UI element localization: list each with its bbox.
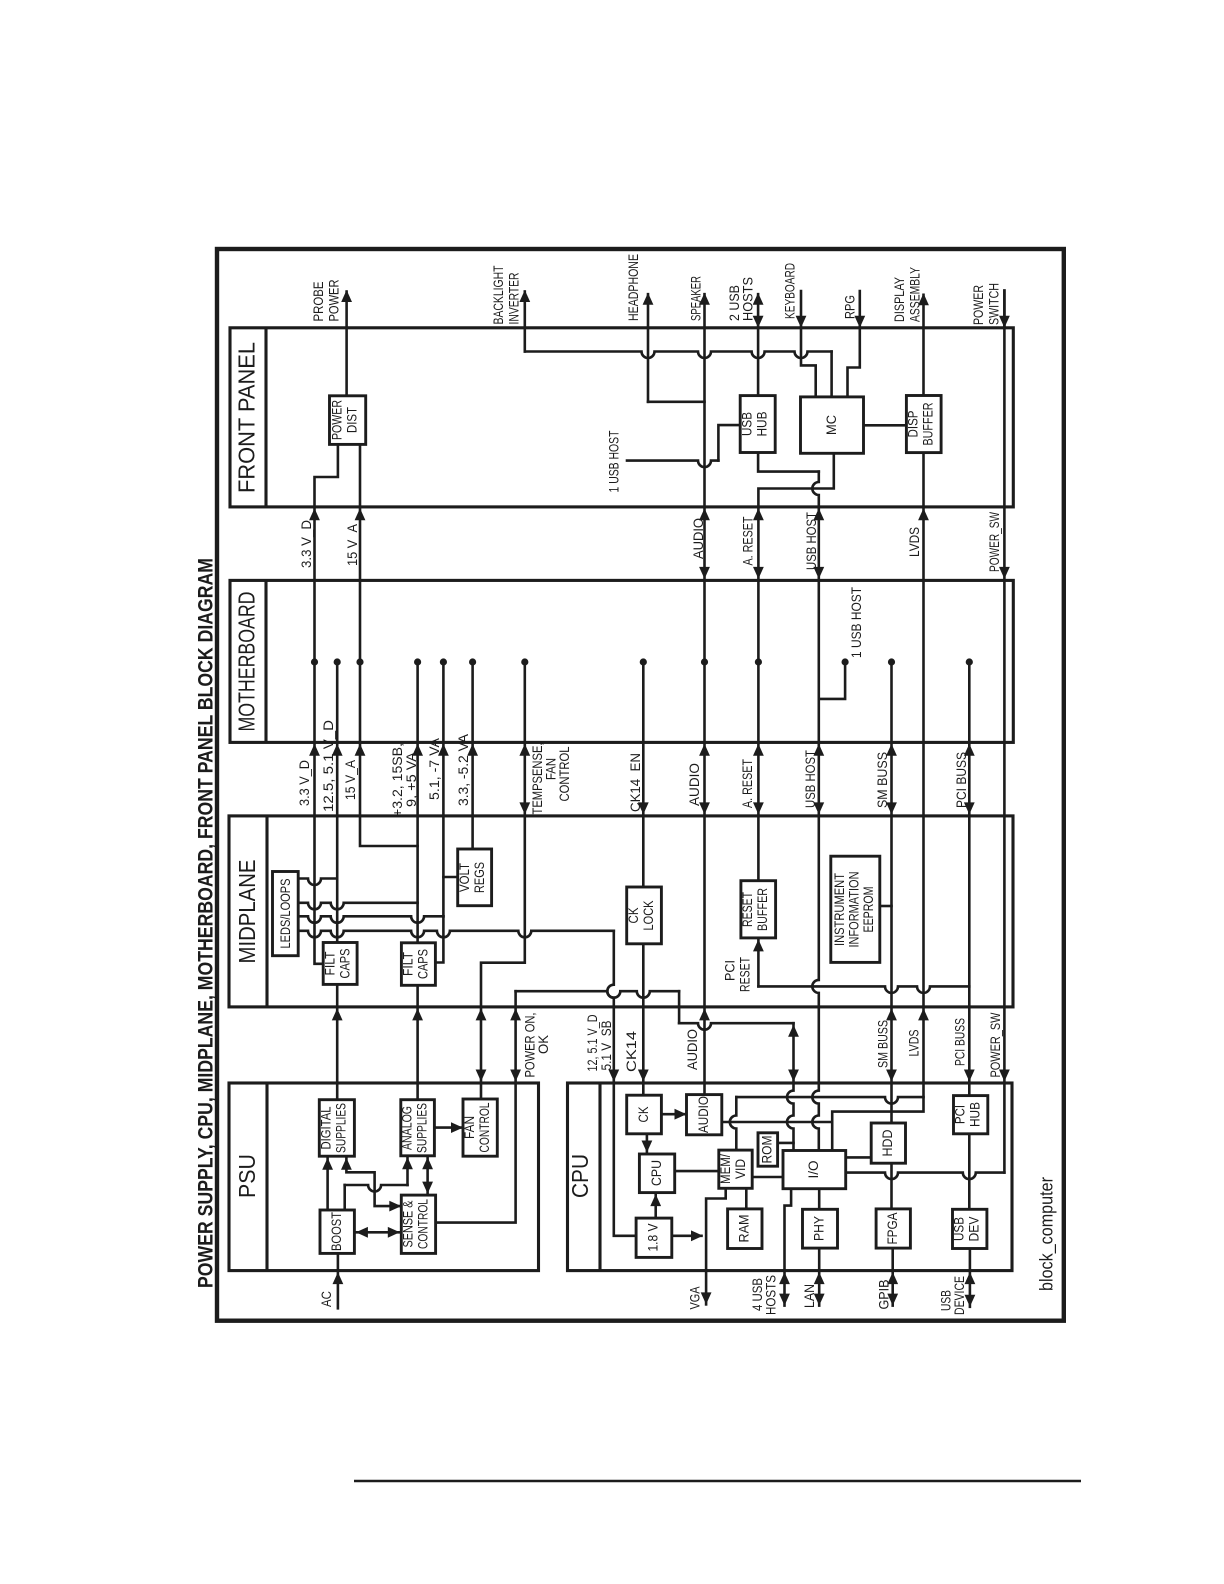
svg-text:PCI BUSS: PCI BUSS bbox=[952, 1018, 968, 1066]
wire I/O to HDD bbox=[846, 1156, 872, 1159]
wire AUDIO codec to I/O riser bbox=[722, 1121, 832, 1124]
section box PSU bbox=[229, 1083, 539, 1271]
svg-text:RESET: RESET bbox=[739, 892, 755, 927]
wire I/O to PHY bbox=[818, 1189, 821, 1210]
svg-text:AC: AC bbox=[318, 1291, 334, 1307]
wire LEDS loop bus A bbox=[298, 916, 443, 923]
svg-text:5.1 V_SB: 5.1 V_SB bbox=[598, 1021, 614, 1071]
wire 15V_A bbox=[359, 444, 362, 662]
section box FRONT PANEL bbox=[230, 328, 1013, 507]
svg-text:LVDS: LVDS bbox=[906, 527, 922, 557]
block DISP BUFFER bbox=[906, 396, 941, 453]
svg-text:SWITCH: SWITCH bbox=[986, 283, 1002, 325]
svg-text:DISPLAY: DISPLAY bbox=[891, 276, 907, 322]
block DIGITAL SUPPLIES bbox=[319, 1100, 354, 1157]
wire 1 USB HOST motherboard tap bbox=[819, 662, 845, 699]
block AUDIO CODEC bbox=[687, 1095, 722, 1135]
wire USB DEVICE bbox=[969, 1249, 972, 1271]
svg-text:FILT: FILT bbox=[400, 952, 416, 976]
svg-text:MOTHERBOARD: MOTHERBOARD bbox=[234, 592, 260, 732]
svg-text:INVERTER: INVERTER bbox=[506, 273, 522, 325]
wire HEADPHONE bbox=[647, 294, 650, 402]
block FPGA bbox=[876, 1209, 910, 1248]
svg-text:POWER: POWER bbox=[329, 400, 345, 440]
wire PCI RESET bbox=[757, 938, 760, 987]
svg-text:SM BUSS: SM BUSS bbox=[874, 752, 890, 808]
wire 3.3V_D bbox=[315, 444, 338, 507]
section box CPU bbox=[568, 1083, 1013, 1271]
block SENSE & CONTROL bbox=[401, 1195, 435, 1253]
svg-text:MIDPLANE: MIDPLANE bbox=[234, 860, 260, 964]
block MC bbox=[801, 397, 864, 453]
svg-text:15 V_A: 15 V_A bbox=[344, 523, 360, 566]
wire A. RESET bbox=[757, 507, 760, 581]
wire USB HUB to USB HOST bbox=[758, 453, 819, 472]
svg-text:BACKLIGHT: BACKLIGHT bbox=[490, 265, 506, 324]
wire AC input bbox=[337, 1253, 340, 1308]
wire DIGITAL SUPPLIES to SENSE & CONTROL bbox=[346, 1158, 399, 1206]
svg-text:HEADPHONE: HEADPHONE bbox=[625, 254, 641, 321]
wire MC to DISP BUFFER bbox=[864, 424, 907, 427]
svg-text:CONTROL: CONTROL bbox=[556, 746, 572, 801]
wire BOOST to SENSE & CONTROL bbox=[354, 1231, 401, 1234]
wire SPEAKER / AUDIO to front panel bbox=[703, 294, 706, 507]
wire MC to A. RESET bbox=[758, 453, 833, 507]
wire ANALOG SUPPLIES to FAN CONTROL bbox=[434, 1126, 461, 1129]
wire KEYBOARD bbox=[801, 291, 816, 397]
svg-text:PSU: PSU bbox=[234, 1154, 260, 1198]
block POWER DIST bbox=[330, 396, 366, 445]
wire FILT CAPS 2 to ANALOG SUPPLIES bbox=[416, 985, 419, 1099]
wire LAN bbox=[818, 1248, 821, 1271]
svg-text:USB HOST: USB HOST bbox=[802, 750, 818, 808]
wire USB HOST bus lower bbox=[817, 742, 820, 816]
outer frame bbox=[217, 249, 1064, 1321]
svg-text:DIST: DIST bbox=[344, 407, 360, 433]
svg-text:CK14_EN: CK14_EN bbox=[627, 753, 643, 812]
wire CK to CPU bbox=[646, 1134, 649, 1154]
wire LVDS bbox=[922, 453, 925, 507]
wire AUDIO bus bbox=[703, 507, 706, 581]
wire MEM/VID video feed bbox=[736, 1097, 923, 1104]
svg-text:REGS: REGS bbox=[471, 862, 487, 893]
svg-text:15 V_A: 15 V_A bbox=[342, 759, 358, 800]
wire DISPLAY ASSEMBLY bbox=[922, 295, 925, 396]
svg-text:block_computer: block_computer bbox=[1037, 1177, 1058, 1291]
svg-text:1 USB HOST: 1 USB HOST bbox=[848, 587, 864, 658]
svg-text:MEM/: MEM/ bbox=[717, 1154, 733, 1184]
wire CK14_EN bbox=[640, 658, 647, 665]
svg-text:BOOST: BOOST bbox=[328, 1212, 344, 1251]
svg-text:DEVICE: DEVICE bbox=[951, 1276, 967, 1315]
svg-text:DISP: DISP bbox=[905, 411, 921, 438]
svg-text:HUB: HUB bbox=[754, 412, 770, 437]
svg-text:BUFFER: BUFFER bbox=[754, 888, 770, 931]
wire EEPROM stub bbox=[880, 905, 892, 908]
wire VGA bbox=[706, 1188, 726, 1270]
wire 12.5, 5.1 V_D bbox=[334, 658, 341, 665]
wire MEM/VID to RAM bbox=[745, 1188, 748, 1209]
block HDD bbox=[871, 1123, 905, 1163]
svg-text:CK: CK bbox=[625, 907, 641, 924]
wire LVDS / video to I/O bbox=[832, 1083, 923, 1151]
svg-text:MC: MC bbox=[823, 415, 839, 435]
wire 4 USB HOSTS bbox=[785, 1189, 792, 1271]
svg-text:PCI BUSS: PCI BUSS bbox=[953, 752, 969, 808]
svg-text:CK: CK bbox=[635, 1106, 651, 1123]
svg-text:USB: USB bbox=[739, 412, 755, 436]
wire SM BUSS bbox=[888, 658, 895, 665]
svg-text:RPG: RPG bbox=[842, 295, 858, 319]
block MEM/VID bbox=[719, 1150, 752, 1188]
block FILT CAPS 1 bbox=[323, 943, 357, 985]
svg-text:ASSEMBLY: ASSEMBLY bbox=[907, 267, 923, 322]
svg-text:CONTROL: CONTROL bbox=[476, 1102, 492, 1152]
svg-text:LEDS/LOOPS: LEDS/LOOPS bbox=[277, 879, 293, 949]
wire CK to AUDIO bbox=[661, 1113, 685, 1116]
svg-text:CONTROL: CONTROL bbox=[415, 1199, 431, 1249]
wire FILT CAPS 2 right feed bbox=[435, 916, 443, 962]
block I/O bbox=[783, 1151, 846, 1189]
svg-text:CAPS: CAPS bbox=[337, 949, 353, 979]
wire MEM/VID to I/O bbox=[752, 1176, 783, 1179]
wire 5.1, -7 VA bbox=[440, 658, 447, 665]
svg-text:3.3 V_D: 3.3 V_D bbox=[296, 760, 312, 806]
svg-text:DIGITAL: DIGITAL bbox=[318, 1106, 334, 1149]
section box MOTHERBOARD bbox=[230, 580, 1013, 742]
section box MIDPLANE bbox=[229, 816, 1013, 1007]
block PHY bbox=[803, 1209, 838, 1248]
svg-text:3.3, -5.2 VA: 3.3, -5.2 VA bbox=[455, 733, 471, 806]
svg-text:RAM: RAM bbox=[736, 1215, 752, 1243]
block LEDS/LOOPS bbox=[273, 872, 299, 956]
block FAN CONTROL bbox=[463, 1099, 497, 1156]
wire ANALOG SUPPLIES to SENSE & CONTROL bbox=[426, 1156, 429, 1195]
svg-text:VGA: VGA bbox=[687, 1286, 703, 1310]
wire BOOST to ANALOG SUPPLIES bbox=[343, 1185, 346, 1210]
block USB HUB bbox=[740, 396, 775, 453]
svg-text:OK: OK bbox=[535, 1034, 551, 1054]
wire PROBE POWER bbox=[345, 292, 348, 396]
svg-text:KEYBOARD: KEYBOARD bbox=[782, 263, 798, 319]
wire POWER ON, OK bbox=[436, 1083, 516, 1223]
svg-text:SUPPLIES: SUPPLIES bbox=[333, 1103, 349, 1153]
svg-text:BUFFER: BUFFER bbox=[920, 403, 936, 446]
svg-text:CAPS: CAPS bbox=[415, 949, 431, 979]
block CK bbox=[627, 1095, 662, 1134]
svg-text:SPEAKER: SPEAKER bbox=[688, 276, 704, 321]
wire CK14 bbox=[642, 944, 645, 1095]
svg-text:VID: VID bbox=[732, 1159, 748, 1179]
svg-text:LVDS: LVDS bbox=[906, 1030, 922, 1057]
wire PCI HUB to USB DEV bbox=[968, 1134, 971, 1210]
wire 1.8 V to CPU bbox=[654, 1193, 657, 1219]
svg-text:DEV: DEV bbox=[966, 1216, 982, 1242]
wire CPU to MEM/VID bbox=[675, 1170, 719, 1173]
svg-text:POWER SUPPLY, CPU, MIDPLANE, M: POWER SUPPLY, CPU, MIDPLANE, MOTHERBOARD… bbox=[195, 558, 218, 1288]
svg-text:EEPROM: EEPROM bbox=[860, 887, 876, 933]
wire VOLT REGS feed stub bbox=[443, 876, 457, 879]
block FILT CAPS 2 bbox=[401, 943, 435, 986]
svg-text:SM BUSS: SM BUSS bbox=[875, 1020, 891, 1068]
svg-text:12.5, 5.1 V_D: 12.5, 5.1 V_D bbox=[320, 720, 336, 812]
svg-text:3.3 V_D: 3.3 V_D bbox=[298, 520, 314, 568]
wire POWER SWITCH bbox=[1003, 291, 1006, 507]
svg-text:FPGA: FPGA bbox=[884, 1212, 900, 1245]
svg-text:PCI: PCI bbox=[952, 1105, 968, 1124]
svg-text:VOLT: VOLT bbox=[456, 863, 472, 892]
wire PCI BUSS bbox=[966, 658, 973, 665]
wire FILT CAPS 1 to DIGITAL SUPPLIES bbox=[336, 984, 339, 1099]
svg-text:FILT: FILT bbox=[322, 951, 338, 975]
svg-text:AUDIO: AUDIO bbox=[684, 1029, 700, 1070]
wire LEDS stub 1 bbox=[298, 879, 337, 886]
wire 12, 5.1 V_D 5.1 V_SB bbox=[298, 931, 614, 938]
block RAM bbox=[728, 1209, 762, 1249]
svg-text:5.1, -7 VA: 5.1, -7 VA bbox=[426, 737, 442, 800]
wire SM BUSS lower bbox=[890, 1007, 893, 1083]
svg-text:USB: USB bbox=[951, 1217, 967, 1241]
svg-text:POWER_SW: POWER_SW bbox=[986, 511, 1002, 572]
svg-text:9, +5 VA: 9, +5 VA bbox=[403, 751, 419, 807]
wire BOOST to DIGITAL SUPPLIES bbox=[326, 1156, 329, 1210]
svg-text:AUDIO: AUDIO bbox=[686, 763, 702, 806]
block BOOST bbox=[320, 1210, 354, 1253]
block CPU chip bbox=[639, 1154, 674, 1193]
svg-text:PROBE: PROBE bbox=[310, 282, 326, 322]
svg-text:PCI: PCI bbox=[722, 960, 738, 981]
block VOLT REGS bbox=[458, 849, 492, 906]
block RESET BUFFER bbox=[741, 881, 776, 938]
svg-text:POWER: POWER bbox=[326, 280, 342, 322]
svg-text:FAN: FAN bbox=[461, 1116, 477, 1139]
svg-text:1.8 V: 1.8 V bbox=[645, 1223, 661, 1252]
block ROM bbox=[758, 1133, 778, 1166]
svg-text:POWER_SW: POWER_SW bbox=[987, 1012, 1003, 1078]
wire BACKLIGHT INVERTER bbox=[523, 292, 526, 352]
wire USB HOST bus bbox=[817, 507, 820, 581]
footer rule bbox=[354, 1480, 1081, 1483]
block 1.8 V bbox=[636, 1218, 672, 1257]
svg-text:ROM: ROM bbox=[759, 1136, 775, 1164]
svg-text:PHY: PHY bbox=[811, 1215, 827, 1241]
svg-text:ANALOG: ANALOG bbox=[399, 1106, 415, 1150]
svg-text:GPIB: GPIB bbox=[876, 1280, 892, 1310]
wire TEMPSENSE, FAN CONTROL bbox=[521, 658, 528, 665]
wire ROM stub bbox=[778, 1142, 794, 1145]
block PCI HUB bbox=[954, 1096, 988, 1134]
wire RPG bbox=[848, 291, 860, 397]
svg-text:LOCK: LOCK bbox=[640, 900, 656, 931]
block USB DEV bbox=[953, 1209, 987, 1248]
svg-text:HUB: HUB bbox=[967, 1102, 983, 1127]
svg-text:FRONT PANEL: FRONT PANEL bbox=[234, 342, 260, 493]
svg-text:USB HOST: USB HOST bbox=[803, 512, 819, 570]
svg-text:HOSTS: HOSTS bbox=[763, 1275, 779, 1315]
svg-text:RESET: RESET bbox=[737, 957, 753, 992]
svg-text:CPU: CPU bbox=[567, 1154, 593, 1198]
svg-text:AUDIO: AUDIO bbox=[690, 518, 706, 559]
svg-text:1 USB HOST: 1 USB HOST bbox=[606, 430, 622, 492]
wire 3.3, -5.2 VA bbox=[469, 658, 476, 665]
svg-text:A. RESET: A. RESET bbox=[740, 516, 756, 565]
svg-text:SUPPLIES: SUPPLIES bbox=[414, 1103, 430, 1153]
svg-text:POWER: POWER bbox=[970, 285, 986, 325]
wire 2 USB HOSTS bbox=[757, 294, 760, 395]
block INSTRUMENT INFORMATION EEPROM bbox=[831, 856, 880, 962]
svg-text:SENSE &: SENSE & bbox=[400, 1200, 416, 1248]
wire 1.8 V output bbox=[672, 1235, 702, 1238]
svg-text:I/O: I/O bbox=[805, 1160, 821, 1178]
wire 1 USB HOST front panel bbox=[627, 461, 718, 468]
wire GPIB bbox=[891, 1248, 894, 1271]
svg-text:HOSTS: HOSTS bbox=[740, 277, 756, 321]
svg-text:HDD: HDD bbox=[879, 1130, 895, 1157]
block ANALOG SUPPLIES bbox=[401, 1100, 435, 1156]
svg-text:CPU: CPU bbox=[648, 1160, 664, 1186]
wire POWER_SW bbox=[1003, 291, 1006, 328]
svg-text:LAN: LAN bbox=[801, 1284, 817, 1308]
svg-text:CK14: CK14 bbox=[623, 1031, 639, 1072]
svg-text:AUDIO: AUDIO bbox=[695, 1096, 711, 1133]
wire LEDS stub 2 bbox=[298, 903, 417, 910]
block CK LOCK bbox=[627, 887, 662, 944]
svg-text:A. RESET: A. RESET bbox=[739, 759, 755, 808]
wire +3.2, 15SB, 9, +5 VA bbox=[414, 658, 421, 665]
